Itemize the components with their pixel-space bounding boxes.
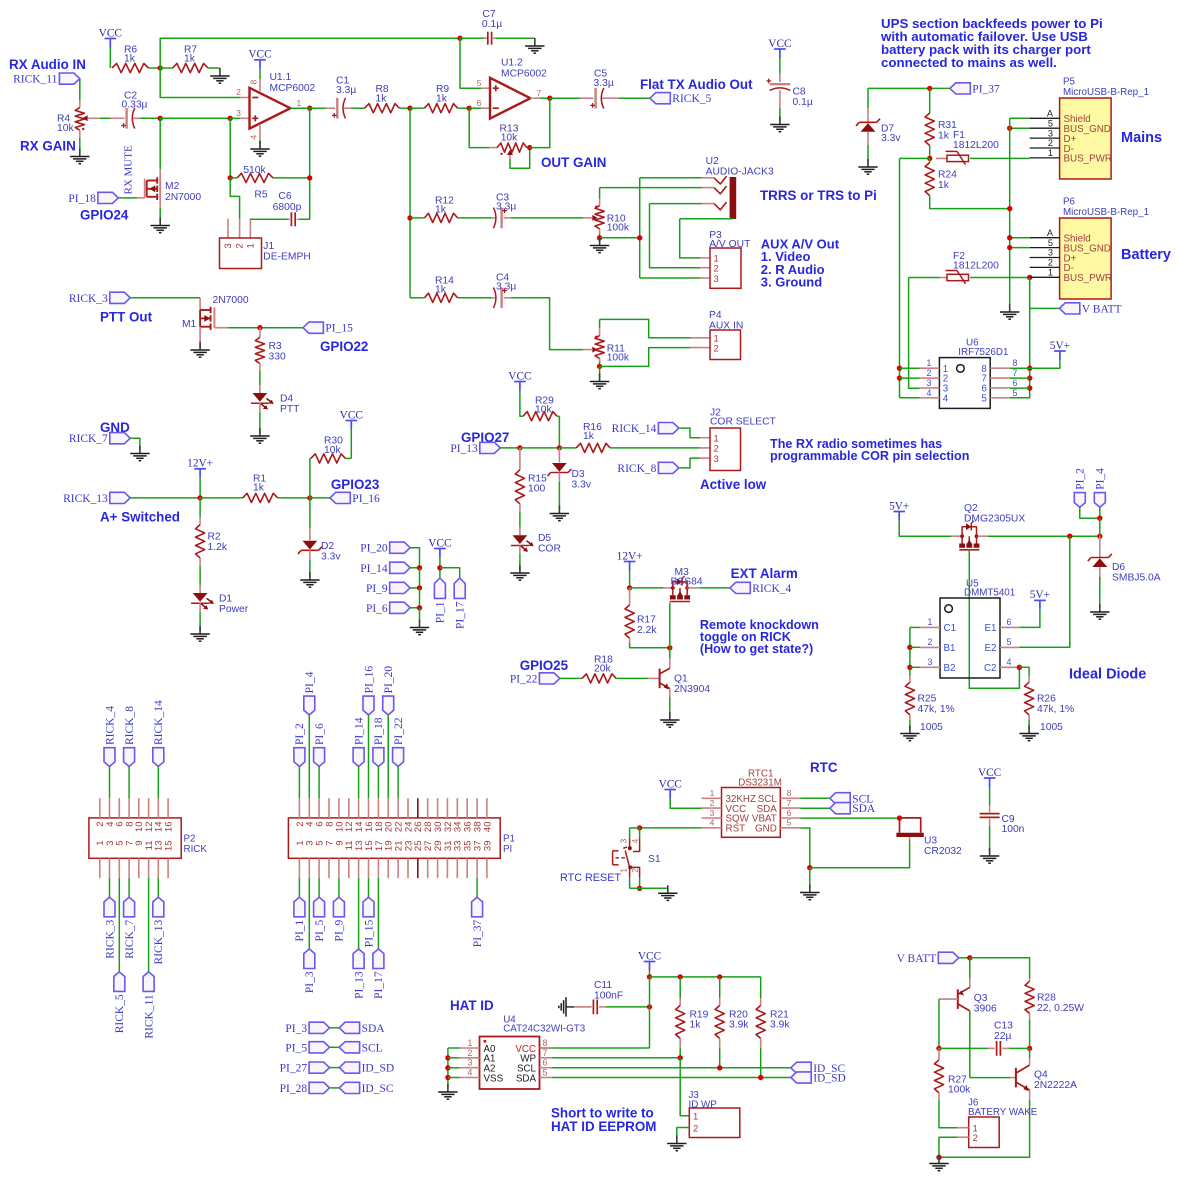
wire RICK_7 to ground <box>130 438 140 450</box>
wire tie <box>330 1087 340 1089</box>
svg-text:PI_3: PI_3 <box>304 971 316 993</box>
wire to R28 <box>970 958 1030 978</box>
svg-text:100n: 100n <box>1002 824 1025 835</box>
svg-text:PI_6: PI_6 <box>366 603 388 615</box>
ground (RTC) <box>809 885 811 893</box>
svg-text:1: 1 <box>245 243 256 248</box>
connector J6 BATERY WAKE <box>969 1117 1000 1148</box>
svg-text:PI_15: PI_15 <box>363 919 375 947</box>
flag PI_14 (P1 top) <box>353 748 364 767</box>
potentiometer R4 <box>79 100 81 108</box>
wire Q4 emitter to gnd rail <box>939 1100 1030 1157</box>
junction PI_14 <box>417 565 422 570</box>
wire C1 <box>910 626 920 628</box>
svg-text:EXT Alarm: EXT Alarm <box>731 566 798 581</box>
junction WP/R19 <box>678 1055 683 1060</box>
svg-text:VCC: VCC <box>768 38 791 50</box>
svg-text:connected to mains as well.: connected to mains as well. <box>881 55 1057 70</box>
wire BUS_GND <box>1010 127 1030 129</box>
junction M3/R17 <box>627 585 632 590</box>
connector P3 A/V OUT <box>700 257 710 259</box>
wire PI_14 <box>410 567 419 569</box>
flag ID_SD <box>791 1072 811 1083</box>
svg-text:3906: 3906 <box>974 1004 997 1015</box>
wire ring2 to P3 pin2 <box>650 204 701 268</box>
svg-text:VSS: VSS <box>484 1073 504 1084</box>
ground (R11) <box>599 374 601 382</box>
junction A1 <box>445 1055 450 1060</box>
svg-text:VCC: VCC <box>508 370 531 382</box>
wire VCC to C9 <box>989 787 991 805</box>
wire to R2 <box>199 498 201 517</box>
wire <box>760 977 762 998</box>
wire to M3 <box>630 587 663 589</box>
svg-text:COR: COR <box>538 544 561 555</box>
wire PI_5 <box>318 878 320 897</box>
ground (M2) <box>159 218 161 226</box>
wire V BATT <box>1030 278 1060 309</box>
wire tip net down <box>639 178 641 278</box>
svg-text:RICK_5: RICK_5 <box>672 93 711 105</box>
svg-text:PI_1: PI_1 <box>435 601 447 623</box>
svg-text:22, 0.25W: 22, 0.25W <box>1037 1003 1084 1014</box>
svg-text:4: 4 <box>630 839 640 844</box>
svg-text:ID WP: ID WP <box>689 1099 718 1110</box>
svg-text:40: 40 <box>482 822 493 833</box>
svg-text:RICK_4: RICK_4 <box>104 706 116 745</box>
svg-text:PI_16: PI_16 <box>363 666 375 694</box>
junction P6 BUS_GND <box>1007 245 1012 250</box>
svg-text:5: 5 <box>1013 388 1018 398</box>
svg-text:PI_27: PI_27 <box>280 1063 308 1075</box>
wire R11 top to P4 pin1 <box>600 319 690 337</box>
mosfet M1 2N7000 <box>199 298 201 310</box>
svg-text:BUS_PWR: BUS_PWR <box>1064 154 1112 165</box>
svg-text:RTC: RTC <box>810 760 838 775</box>
svg-text:47k, 1%: 47k, 1% <box>1037 704 1074 715</box>
wire tie <box>330 1046 340 1048</box>
connector J2 COR SELECT <box>700 437 710 439</box>
wire R15 to D5 <box>519 512 521 527</box>
svg-text:ID_SC: ID_SC <box>362 1083 394 1095</box>
svg-text:P5: P5 <box>1063 77 1076 88</box>
wire down <box>419 568 421 588</box>
wire VCC down <box>649 971 651 977</box>
wire Q3 base down <box>938 999 940 1048</box>
svg-text:PI_37: PI_37 <box>972 83 1000 95</box>
junction R13 <box>527 145 532 150</box>
wire C6 to output node <box>300 178 310 219</box>
wire F1 to P5 BUS_PWR <box>970 157 1030 159</box>
svg-text:R2: R2 <box>208 532 221 543</box>
svg-text:5: 5 <box>787 818 792 828</box>
svg-text:RX GAIN: RX GAIN <box>20 139 76 154</box>
LED D1 Power <box>199 585 201 593</box>
flag PI_16 <box>330 492 350 503</box>
svg-text:1: 1 <box>928 617 933 627</box>
svg-text:7: 7 <box>543 1048 548 1058</box>
wire <box>679 977 681 998</box>
svg-text:PI_2: PI_2 <box>294 723 306 745</box>
flag PI_4 (down) <box>1094 493 1105 508</box>
svg-text:PI: PI <box>503 844 512 855</box>
ground (J6) <box>938 1156 940 1164</box>
svg-text:A/V OUT: A/V OUT <box>709 239 751 250</box>
svg-text:C8: C8 <box>793 87 806 98</box>
wire C11 to VCC net <box>606 1006 650 1008</box>
wire R11 bottom to P4 pin2 <box>600 348 690 367</box>
svg-text:C11: C11 <box>594 980 612 991</box>
svg-text:RICK_5: RICK_5 <box>114 994 126 1033</box>
ground (C8) <box>779 117 781 125</box>
wire WP <box>552 1057 680 1059</box>
svg-text:VCC: VCC <box>248 49 271 61</box>
wire tip <box>640 177 702 179</box>
svg-text:SDA: SDA <box>516 1073 537 1084</box>
junction F1/R24 <box>927 156 932 161</box>
svg-text:PI_5: PI_5 <box>314 919 326 941</box>
junction R15 <box>517 445 522 450</box>
flag ID_SC <box>791 1062 811 1073</box>
wire address net <box>447 1048 449 1088</box>
svg-text:510k: 510k <box>243 165 266 176</box>
svg-text:RICK_11: RICK_11 <box>13 74 58 86</box>
wire R24 to gnd net <box>930 196 1010 209</box>
wire ring2 <box>650 203 703 205</box>
svg-text:A: A <box>1047 228 1054 238</box>
wire R31 to F1 <box>929 146 931 159</box>
wire VCC to RTC pin2 <box>670 799 701 809</box>
wire PI_17 <box>377 878 379 949</box>
svg-text:1: 1 <box>927 358 932 368</box>
capacitor C11 <box>574 1006 592 1008</box>
svg-text:5: 5 <box>1007 637 1012 647</box>
wire to C7 <box>160 38 460 68</box>
wire 12V+ down <box>629 571 631 588</box>
header P2 RICK <box>89 818 181 858</box>
wire <box>939 1047 988 1049</box>
svg-text:0.33µ: 0.33µ <box>122 100 148 111</box>
transistor Q1 2N3904 <box>648 677 660 679</box>
svg-text:R28: R28 <box>1037 992 1056 1003</box>
svg-text:5: 5 <box>981 393 987 404</box>
svg-text:5V+: 5V+ <box>889 500 909 512</box>
wire PI_14 <box>358 767 360 799</box>
wire RICK_13 <box>130 497 200 499</box>
junction R6/R7 <box>158 65 163 70</box>
wire to ground <box>599 366 601 378</box>
svg-text:3.3v: 3.3v <box>572 480 592 491</box>
svg-text:4: 4 <box>710 818 715 828</box>
svg-text:V BATT: V BATT <box>1082 303 1122 315</box>
wire tie <box>330 1027 340 1029</box>
svg-text:RICK_7: RICK_7 <box>124 919 136 958</box>
svg-text:39: 39 <box>482 841 493 852</box>
flag PI_16 (P1 top) <box>363 696 374 715</box>
junction PI_6 <box>417 605 422 610</box>
wire R26 to ground <box>1028 720 1030 730</box>
svg-text:C2: C2 <box>984 663 997 674</box>
svg-text:1005: 1005 <box>1040 722 1063 733</box>
svg-text:RICK_3: RICK_3 <box>69 293 108 305</box>
wire to PI_17 <box>440 568 460 578</box>
flag PI_17 (down) <box>454 578 465 598</box>
ground (C7) <box>534 38 536 46</box>
svg-text:2: 2 <box>928 637 933 647</box>
svg-text:PI_37: PI_37 <box>472 919 484 947</box>
flag RICK_4 (EXT) <box>730 582 750 593</box>
svg-text:3.9k: 3.9k <box>770 1020 790 1031</box>
svg-text:2: 2 <box>468 1048 473 1058</box>
ground (S1) <box>667 885 669 893</box>
svg-text:U1.1: U1.1 <box>270 72 292 83</box>
svg-text:E2: E2 <box>985 643 997 654</box>
wire VCC to U1.1 pin8 <box>259 69 261 79</box>
ground (M1) <box>199 342 201 350</box>
svg-text:PI_4: PI_4 <box>304 671 316 693</box>
svg-text:VCC: VCC <box>638 950 661 962</box>
junction C7 <box>457 36 462 41</box>
svg-text:OUT GAIN: OUT GAIN <box>541 155 606 170</box>
connector P5 MicroUSB (Mains) <box>1060 98 1112 179</box>
wire RICK_8 to J2 pin3 <box>679 458 700 468</box>
ground (U4) <box>447 1084 449 1092</box>
wire RICK_11 <box>148 878 150 972</box>
junction U1.1 output <box>307 106 312 111</box>
svg-text:PI_13: PI_13 <box>450 443 478 455</box>
flag RICK_14 (P2) <box>153 748 164 767</box>
wire VCC down <box>439 558 441 579</box>
svg-text:0.1µ: 0.1µ <box>793 97 813 108</box>
svg-text:12V+: 12V+ <box>187 458 213 470</box>
svg-text:MCP6002: MCP6002 <box>270 83 316 94</box>
svg-text:PI_9: PI_9 <box>366 583 388 595</box>
junction U6 pin2 <box>897 375 902 380</box>
svg-text:330: 330 <box>269 351 286 362</box>
svg-text:1.2k: 1.2k <box>208 542 228 553</box>
capacitor C4 <box>492 297 495 299</box>
wire RICK_13 <box>157 878 159 897</box>
wire R8 node down <box>409 108 411 298</box>
wire R10 top <box>599 188 601 199</box>
svg-text:S1: S1 <box>648 854 661 865</box>
svg-text:VCC: VCC <box>978 767 1001 779</box>
junction R5/J1 <box>228 175 233 180</box>
junction R10/ground <box>597 235 602 240</box>
svg-text:2N7000: 2N7000 <box>165 192 201 203</box>
wire <box>938 1157 940 1160</box>
junction D3 <box>557 445 562 450</box>
wire S1 to ground <box>630 887 668 889</box>
svg-text:6: 6 <box>543 1058 548 1068</box>
wire to U6 net <box>900 157 930 159</box>
wire D2 to ground <box>309 560 311 577</box>
svg-text:D3: D3 <box>572 469 585 480</box>
wire node to M2 drain <box>159 118 161 169</box>
svg-text:1k: 1k <box>435 285 447 296</box>
svg-text:A: A <box>1047 109 1054 119</box>
svg-text:1k: 1k <box>253 483 265 494</box>
resistor R25 47k <box>909 676 911 682</box>
wire <box>669 648 671 659</box>
svg-text:8: 8 <box>543 1038 548 1048</box>
svg-text:Q3: Q3 <box>974 993 988 1004</box>
svg-text:GPIO24: GPIO24 <box>80 208 129 223</box>
junction U6 pin7 <box>1027 375 1032 380</box>
svg-text:6: 6 <box>787 808 792 818</box>
wire PI_4 <box>308 715 310 798</box>
wire to R13 <box>469 108 489 147</box>
header P1 PI <box>288 818 500 858</box>
svg-text:Q1: Q1 <box>674 673 688 684</box>
wire F2 to P6 BUS_PWR <box>970 277 1030 279</box>
ground (R10) <box>599 238 601 246</box>
junction S1 bottom <box>637 886 642 891</box>
jack ring2 contact <box>714 202 727 210</box>
svg-text:4: 4 <box>468 1068 473 1078</box>
wire RICK_3 <box>109 878 111 897</box>
resistor R29 <box>523 412 557 421</box>
wire tip to P3 pin3 <box>640 277 700 279</box>
svg-text:C1: C1 <box>944 623 957 634</box>
svg-text:1k: 1k <box>184 54 196 65</box>
svg-text:PTT Out: PTT Out <box>100 310 153 325</box>
ground (D3) <box>558 506 560 514</box>
svg-text:P6: P6 <box>1063 197 1076 208</box>
svg-text:2.2k: 2.2k <box>637 625 657 636</box>
svg-text:AUDIO-JACK3: AUDIO-JACK3 <box>706 167 774 178</box>
wire E2 to Q2 rail <box>1019 536 1069 647</box>
svg-text:PI_20: PI_20 <box>360 543 388 555</box>
junction A2 <box>445 1065 450 1070</box>
svg-text:3.9k: 3.9k <box>729 1020 749 1031</box>
svg-text:R5: R5 <box>254 190 267 201</box>
ground (USB gnd net) <box>1009 304 1011 312</box>
flag SDA <box>830 803 850 814</box>
wire 5V+ to E1 <box>1019 609 1040 627</box>
junction SCL/R20 <box>717 1065 722 1070</box>
wire gnd rail to battery - <box>810 841 910 868</box>
wire M3 gate to Q1 <box>669 604 671 648</box>
wire Q3 collector down <box>969 1011 971 1078</box>
resistor R15 <box>519 448 521 470</box>
junction PI_2/PI_4 <box>1097 516 1102 521</box>
wire to R5 <box>229 118 231 178</box>
svg-text:3: 3 <box>1048 248 1053 258</box>
wire <box>1029 1048 1031 1058</box>
wire A1 <box>448 1057 460 1059</box>
junction R27/C13 <box>936 1046 941 1051</box>
svg-text:1k: 1k <box>376 93 388 104</box>
svg-text:1k: 1k <box>435 205 447 216</box>
svg-text:5: 5 <box>543 1068 548 1078</box>
fuse F1 1812L200 <box>936 157 947 159</box>
wire RICK_5 <box>118 878 120 972</box>
junction U6 pin1 <box>897 366 902 371</box>
wire D5 to ground <box>519 554 521 570</box>
wire U1.1 out <box>290 107 309 109</box>
wire C7 node to U1.2 pin5 <box>460 38 481 88</box>
svg-text:3: 3 <box>714 454 719 465</box>
svg-text:2: 2 <box>1048 138 1053 148</box>
svg-text:Flat TX Audio Out: Flat TX Audio Out <box>640 77 753 92</box>
flag PI_2 (down) <box>1074 493 1085 508</box>
wire <box>630 827 640 829</box>
svg-text:PI_22: PI_22 <box>393 717 405 745</box>
flag pair PI_28-ID_SC <box>309 1082 329 1093</box>
svg-text:2: 2 <box>714 343 719 354</box>
svg-text:15: 15 <box>164 841 175 852</box>
junction R5 branch <box>228 116 233 121</box>
wire R11 bottom <box>599 362 601 366</box>
svg-text:VCC: VCC <box>99 27 122 39</box>
junction R11 bottom <box>597 364 602 369</box>
junction SDA/R21 <box>758 1075 763 1080</box>
svg-text:U1.2: U1.2 <box>501 58 523 69</box>
svg-text:P4: P4 <box>709 310 722 321</box>
wire sleeve to P3 pin1 <box>680 219 700 258</box>
svg-text:RICK_7: RICK_7 <box>69 433 108 445</box>
svg-text:MicroUSB-B-Rep_1: MicroUSB-B-Rep_1 <box>1063 87 1149 98</box>
wire PI_3 <box>308 878 310 949</box>
svg-text:Active low: Active low <box>700 477 767 492</box>
wire R11 top lead <box>599 319 601 328</box>
zener D6 SMBJ5.0A <box>1099 536 1101 557</box>
svg-text:RICK_14: RICK_14 <box>153 700 165 745</box>
wire to D7 <box>867 88 869 108</box>
svg-text:Ideal Diode: Ideal Diode <box>1069 667 1146 683</box>
LED D4 PTT <box>259 385 261 393</box>
wire S1 to RTC RST <box>640 827 702 829</box>
svg-text:E1: E1 <box>985 623 997 634</box>
junction R3 <box>257 325 262 330</box>
svg-text:RICK: RICK <box>184 844 208 855</box>
connector J3 ID WP <box>689 1108 740 1138</box>
wire R4 to ground <box>79 138 81 155</box>
wire VCC to C8 <box>779 58 781 74</box>
svg-text:GPIO23: GPIO23 <box>331 477 379 492</box>
wire pin2 <box>900 377 920 379</box>
svg-text:RICK_11: RICK_11 <box>143 994 155 1039</box>
wire D4 to ground <box>259 412 261 433</box>
connector P6 MicroUSB (Battery) <box>1060 218 1112 299</box>
svg-text:F1: F1 <box>953 130 965 141</box>
junction R8/R9 <box>407 106 412 111</box>
svg-text:10k: 10k <box>535 405 552 416</box>
svg-text:PI_3: PI_3 <box>285 1023 307 1035</box>
wire pin8 <box>1010 367 1030 369</box>
flag PI_22 (P1 top) <box>393 748 404 767</box>
svg-text:3: 3 <box>619 839 629 844</box>
wire PI_9 <box>338 878 340 897</box>
svg-text:10k: 10k <box>57 123 74 134</box>
junction BUS_GND <box>1007 126 1012 131</box>
ground (D7) <box>867 159 869 167</box>
wire VBAT to battery <box>800 817 899 819</box>
svg-text:1: 1 <box>1048 268 1053 278</box>
svg-text:100k: 100k <box>607 353 630 364</box>
svg-text:1812L200: 1812L200 <box>953 260 999 271</box>
junction S1 top <box>637 825 642 830</box>
wire PI_2 <box>298 767 300 799</box>
junction VSS <box>445 1075 450 1080</box>
svg-text:PI_13: PI_13 <box>353 971 365 999</box>
wire R3 to D4 <box>259 371 261 385</box>
resistor R9 <box>410 107 424 109</box>
wire P6 Shield <box>1010 237 1030 239</box>
junction RTC gnd rail <box>807 865 812 870</box>
ground (R25) <box>909 726 911 734</box>
